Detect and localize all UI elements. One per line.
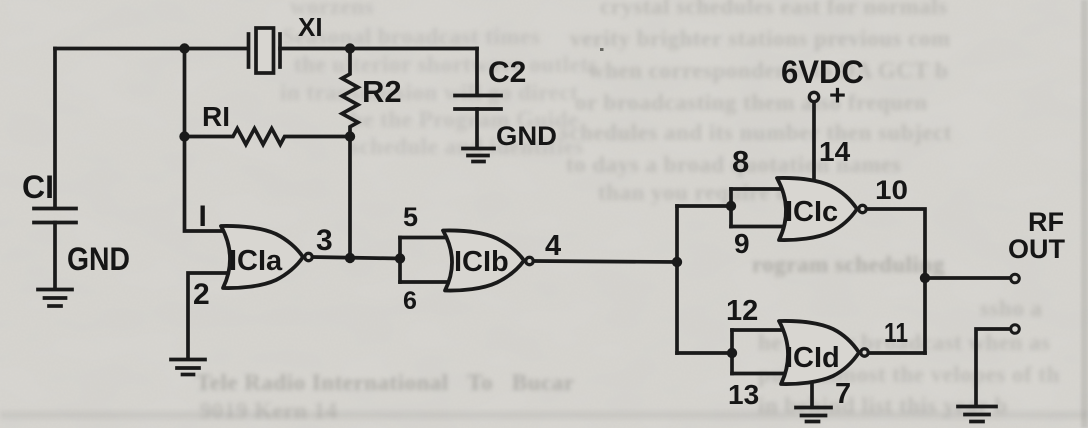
svg-text:13: 13 [728,379,759,410]
node A junction dot top-left [179,43,189,53]
wire branch to IC1d [677,351,734,355]
svg-text:C2: C2 [488,56,526,89]
capacitor C2 plates [455,94,501,98]
node junction dot IC1d input [727,348,737,358]
wire top rail right segment [280,47,477,51]
node junction dot net4 [672,257,682,267]
svg-text:4: 4 [545,230,561,262]
svg-text:OUT: OUT [1008,234,1066,264]
node junction dot RF node [920,273,930,283]
svg-text:2: 2 [193,278,210,311]
crystal X1 body [256,28,274,73]
ghost text top-right column [600,0,947,20]
capacitor C2 lead [475,49,479,96]
svg-text:10: 10 [875,175,908,205]
wire output 11 [869,351,925,355]
svg-text:GND: GND [496,121,557,151]
wire pin 7 to ground [810,384,814,407]
gate IC1c [777,178,857,240]
wire branch to IC1c [677,204,733,208]
ghost text bottom-left [196,370,574,396]
wire C2 to ground [475,109,479,148]
node junction dot top crystal-right / R2 top [345,43,355,53]
wire IC1c input tie [729,189,733,227]
wire pin 14 to 6VDC [812,104,816,180]
wire output 10 [868,209,925,353]
node junction dot feedback/output3 [345,253,355,263]
svg-text:7: 7 [835,378,851,410]
svg-text:3: 3 [316,224,333,257]
crystal X1 plates [247,34,251,67]
svg-text:6VDC: 6VDC [781,54,864,90]
capacitor C1 plates [34,207,76,211]
ghost text bottom-right column [752,252,945,278]
ground under IC1a pin 2 [171,358,205,362]
svg-text:CI: CI [22,169,54,205]
resistor R2 [342,49,358,137]
paper background texture band [0,411,1088,419]
svg-text:12: 12 [726,295,758,327]
wire top rail left segment [55,47,248,51]
svg-text:8: 8 [732,144,749,179]
ground under IC1d pin 7 [796,406,831,410]
gate IC1a [221,226,303,288]
wire IC1d input tie [730,330,734,374]
ground under C2 [463,147,494,151]
svg-text:RF: RF [1028,207,1064,237]
resistor R1 [185,129,351,145]
wire left vertical to C1 [53,49,57,209]
terminal RF OUT hot [1011,274,1020,283]
wire R2 junction down to output node 3 [348,137,352,259]
svg-text:5: 5 [403,202,418,232]
svg-text:R2: R2 [362,74,402,109]
svg-text:XI: XI [298,12,323,42]
node junction dot R1 left [179,131,189,141]
wire output 3 [313,257,400,259]
terminal RF OUT return [1011,325,1020,334]
svg-text:GND: GND [67,241,130,277]
ink speck [600,48,604,51]
svg-text:14: 14 [819,136,851,167]
svg-text:I: I [199,200,207,233]
svg-text:11: 11 [884,317,908,348]
node junction dot IC1c input [726,201,736,211]
gate IC1d [779,321,859,384]
svg-text:ICIb: ICIb [454,246,509,278]
ground under C1 [38,288,72,292]
svg-text:6: 6 [403,287,417,315]
svg-text:ICIa: ICIa [229,245,283,277]
gate IC1b [443,230,524,290]
svg-text:RI: RI [202,101,230,132]
wire IC1b input tie [398,238,402,283]
wire to RF OUT terminal [925,276,1009,280]
ground under return terminal [958,405,996,409]
wire vertical branch x=677 [675,206,679,353]
svg-text:ICId: ICId [785,342,840,374]
wire gate input 2 to ground [188,273,226,359]
wire C1 to ground [53,223,57,290]
ghost bleed-through text top-left column [290,0,374,20]
svg-text:9: 9 [734,228,750,259]
wire output 4 [535,261,677,262]
wire return terminal to ground [976,329,1010,406]
node junction dot R1/R2 [345,131,355,141]
svg-text:+: + [829,80,846,112]
wire vertical x=184 to gate input 1 [185,49,228,232]
svg-text:ICIc: ICIc [785,196,838,228]
node junction dot IC1b input [395,253,405,263]
terminal 6VDC [809,92,818,101]
